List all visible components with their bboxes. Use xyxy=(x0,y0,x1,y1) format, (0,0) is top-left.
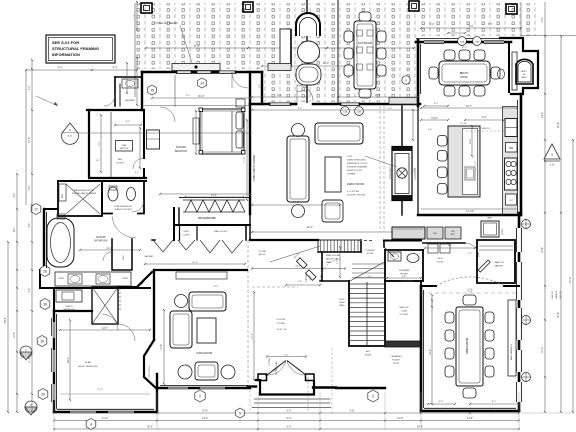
living circle 2 xyxy=(178,365,192,379)
breakfast chair left xyxy=(429,67,438,79)
living circle 1 xyxy=(175,295,188,308)
place setting xyxy=(357,47,363,53)
svg-text:SLOPED CEILING: SLOPED CEILING xyxy=(347,195,366,197)
pergola column 2 xyxy=(243,2,253,12)
deck door swing arc xyxy=(297,85,313,103)
family room interior dims xyxy=(252,109,418,111)
svg-text:16'-10": 16'-10" xyxy=(460,123,467,125)
bar stool 3 xyxy=(438,167,448,178)
section marker 2 xyxy=(62,123,78,133)
svg-text:58'-4": 58'-4" xyxy=(3,317,7,324)
svg-text:6'-0": 6'-0" xyxy=(468,138,472,143)
adult door arc xyxy=(118,324,135,341)
leader arrow bath xyxy=(36,96,58,106)
svg-text:5'-8": 5'-8" xyxy=(402,276,407,278)
svg-text:17: 17 xyxy=(34,207,38,211)
window marker 14 xyxy=(198,78,207,88)
pergola column 1 xyxy=(141,3,152,13)
svg-text:8'-2": 8'-2" xyxy=(492,401,497,403)
svg-text:17'-0": 17'-0" xyxy=(252,333,254,339)
pantry door 45 xyxy=(478,260,490,272)
svg-text:8'-0": 8'-0" xyxy=(469,25,474,28)
arched opening marks xyxy=(296,258,307,269)
wall: her closet top xyxy=(87,109,144,111)
svg-text:8'-0": 8'-0" xyxy=(194,44,200,48)
svg-text:HALLWAY: HALLWAY xyxy=(145,255,154,258)
refrigerator xyxy=(505,119,517,137)
svg-text:BLAH 'S: BLAH 'S xyxy=(65,305,73,308)
svg-text:7'-4": 7'-4" xyxy=(443,410,448,413)
svg-text:INFORMATION: INFORMATION xyxy=(52,52,80,57)
marker hex bottom 4 xyxy=(86,419,96,430)
svg-text:WALK CLOSET: WALK CLOSET xyxy=(214,230,228,233)
pocket door leaf xyxy=(384,247,394,257)
svg-text:SEE S-01 FOR: SEE S-01 FOR xyxy=(52,40,79,45)
svg-text:WASHER AND DRYER: WASHER AND DRYER xyxy=(74,189,94,192)
outdoor chair right 2 xyxy=(377,48,386,59)
svg-text:10A: 10A xyxy=(460,40,464,43)
upper stair treads xyxy=(352,263,385,265)
svg-text:10B: 10B xyxy=(475,41,479,43)
entry arc to dining xyxy=(436,277,504,286)
svg-text:ELEV +0D: ELEV +0D xyxy=(277,329,287,331)
window marker 12A xyxy=(341,107,350,116)
svg-text:9'-0": 9'-0" xyxy=(284,354,289,356)
svg-text:9'-0": 9'-0" xyxy=(287,417,292,420)
svg-text:BLAH TOP: BLAH TOP xyxy=(482,127,492,130)
window gaps adult west xyxy=(53,322,55,338)
svg-text:24'-9": 24'-9" xyxy=(557,122,560,128)
svg-text:MASTER: MASTER xyxy=(96,236,106,239)
svg-text:PROPOSED TV: PROPOSED TV xyxy=(390,164,392,178)
svg-text:14: 14 xyxy=(200,81,204,85)
svg-text:STACKED PAIR BY OWNER: STACKED PAIR BY OWNER xyxy=(72,192,97,195)
wall: breakfast room west xyxy=(417,40,420,106)
living armchair xyxy=(195,362,218,380)
svg-text:16: 16 xyxy=(43,269,47,273)
wall inner line: bath west xyxy=(46,212,48,268)
coat closet xyxy=(387,281,421,346)
svg-text:20: 20 xyxy=(41,392,45,396)
breakfast chair bottom 2 xyxy=(459,86,470,96)
oven cabinet xyxy=(506,194,517,205)
family armchair xyxy=(322,200,343,222)
wall: rear hall mid xyxy=(384,240,421,242)
outdoor chair right 3 xyxy=(377,65,386,76)
wall: dining east xyxy=(518,213,521,411)
mud room lockers xyxy=(423,242,465,244)
svg-text:2'-4": 2'-4" xyxy=(134,14,136,18)
svg-text:14'-2": 14'-2" xyxy=(102,417,108,420)
svg-text:13'-8": 13'-8" xyxy=(161,344,163,350)
svg-text:4'-2": 4'-2" xyxy=(124,76,126,80)
planter bay above bedroom wall xyxy=(172,64,220,71)
hall dashed arcs xyxy=(320,259,342,281)
breakfast chair top 3 xyxy=(474,50,485,60)
nightstand NE corner xyxy=(236,99,245,107)
bed xyxy=(200,109,244,154)
svg-text:2-STORY: 2-STORY xyxy=(276,319,286,321)
window gap bkfst north xyxy=(424,41,444,43)
svg-text:16'-7": 16'-7" xyxy=(466,105,472,108)
hall dim xyxy=(145,263,245,265)
svg-text:TOWEL: TOWEL xyxy=(58,278,64,280)
wall: step to family xyxy=(261,72,263,104)
wall: wine stair south xyxy=(318,251,361,253)
bar cabinets east xyxy=(508,300,516,376)
window marker 12B xyxy=(355,107,364,116)
svg-text:FRONT PORCH: FRONT PORCH xyxy=(149,365,151,379)
window marker 10A xyxy=(458,37,467,46)
shower with X xyxy=(92,287,118,324)
svg-text:POWDER: POWDER xyxy=(399,270,409,272)
wall: adult west xyxy=(53,310,55,412)
diagonal wall hall-living xyxy=(136,272,152,288)
svg-text:4'-8": 4'-8" xyxy=(439,401,444,403)
kitchen island xyxy=(448,126,480,197)
svg-text:9'-0": 9'-0" xyxy=(287,426,292,429)
door arc adult xyxy=(102,314,118,330)
fireplace leader xyxy=(365,156,397,167)
wall: breakfast room north xyxy=(416,41,511,44)
stair side wall xyxy=(321,252,323,281)
wall inner line: bkfst west xyxy=(420,44,422,94)
vanity double xyxy=(40,270,150,288)
wall: adult east xyxy=(156,374,158,412)
svg-text:PANTRY: PANTRY xyxy=(495,265,504,268)
svg-text:4'-0": 4'-0" xyxy=(96,160,100,162)
svg-text:2-STORY: 2-STORY xyxy=(269,357,271,366)
dining chair right 2 xyxy=(485,330,494,341)
marker hex 3 xyxy=(368,390,378,402)
marker hex 18 xyxy=(40,299,50,310)
svg-text:4'-6": 4'-6" xyxy=(481,115,486,119)
outdoor counter xyxy=(280,29,291,67)
grill side sink xyxy=(498,69,505,79)
interior dim marks xyxy=(252,96,307,98)
dining chair right 3 xyxy=(485,348,494,359)
dresser by closet xyxy=(147,130,160,149)
svg-text:PLANNING: PLANNING xyxy=(305,273,308,283)
svg-text:10'-2": 10'-2" xyxy=(541,112,544,118)
wall: rear hall north xyxy=(418,214,521,216)
place setting xyxy=(357,30,363,36)
svg-text:14'-7": 14'-7" xyxy=(461,47,467,49)
note box SEE S-01 xyxy=(46,35,115,63)
svg-text:8'-4": 8'-4" xyxy=(126,121,131,123)
svg-text:FAMILY ROOM: FAMILY ROOM xyxy=(347,183,364,186)
svg-text:LINE OF: LINE OF xyxy=(552,290,554,299)
svg-text:12'-4": 12'-4" xyxy=(467,291,473,293)
svg-text:14'-0": 14'-0" xyxy=(202,410,208,413)
svg-text:NOOK: NOOK xyxy=(460,76,467,79)
hanger zigzag xyxy=(185,200,245,212)
foyer extra dims xyxy=(253,292,255,380)
closet partition xyxy=(110,112,112,177)
dim near maid bath xyxy=(126,63,128,93)
svg-text:CLOSET: CLOSET xyxy=(116,163,125,165)
svg-text:14'-8": 14'-8" xyxy=(467,417,473,420)
outdoor chair left 3 xyxy=(344,65,353,76)
wall: grill alcove xyxy=(500,38,538,94)
svg-text:4'-6": 4'-6" xyxy=(14,228,16,233)
hall closet row xyxy=(152,239,155,241)
svg-text:19'-8": 19'-8" xyxy=(557,312,560,318)
window gaps living south xyxy=(168,387,188,389)
toilet 1 xyxy=(108,187,118,201)
svg-text:5'-6": 5'-6" xyxy=(29,186,31,191)
kitchen dim labels xyxy=(421,119,448,121)
entry double doors xyxy=(267,361,286,376)
svg-text:6 TRELLIS 2 BEAMS: 6 TRELLIS 2 BEAMS xyxy=(154,22,178,25)
built-in grill xyxy=(516,59,533,84)
svg-text:13'-6": 13'-6" xyxy=(541,247,544,253)
svg-text:WALK IN: WALK IN xyxy=(495,261,504,264)
svg-text:6'-8": 6'-8" xyxy=(414,168,416,172)
pantry shelves xyxy=(479,245,513,247)
svg-text:WALK: WALK xyxy=(326,261,332,264)
dining chair left 1 xyxy=(445,312,454,323)
svg-text:15: 15 xyxy=(150,88,154,92)
entry portal xyxy=(248,385,256,387)
wall: top of laundry xyxy=(58,180,146,182)
outdoor chair left 1 xyxy=(344,31,353,42)
dining chair right 1 xyxy=(485,312,494,323)
window circle marker xyxy=(522,373,531,382)
svg-text:& MODEL NUMBER: & MODEL NUMBER xyxy=(347,167,367,169)
bidet xyxy=(127,188,136,201)
svg-text:4'-6": 4'-6" xyxy=(29,223,31,228)
wall inner line: adult west xyxy=(56,314,58,409)
breakfast chair bottom 1 xyxy=(444,86,455,96)
wall: bath/adult divider xyxy=(53,288,55,311)
planter bay family east xyxy=(389,98,417,105)
door arc bedroom entry xyxy=(160,107,175,122)
wall: her closet xyxy=(89,110,146,178)
elevation marker 2 xyxy=(25,401,37,413)
deck dimension line lower xyxy=(262,65,345,67)
svg-text:5'-6": 5'-6" xyxy=(14,193,16,198)
svg-text:BLAH: BLAH xyxy=(85,361,91,364)
svg-text:11'-4": 11'-4" xyxy=(29,357,31,363)
svg-text:4'-0": 4'-0" xyxy=(541,17,544,22)
soffit line bedroom xyxy=(142,105,250,107)
wall: wardrobe xyxy=(179,197,250,199)
wall: master bedroom north xyxy=(142,71,176,74)
svg-text:19'-8": 19'-8" xyxy=(467,289,473,291)
wall: master bedroom east xyxy=(249,72,251,214)
powder sink xyxy=(388,252,401,261)
center dim line xyxy=(252,268,345,270)
svg-text:POCKET: POCKET xyxy=(392,360,401,362)
bar stool 4 xyxy=(438,184,448,195)
svg-text:ABOVE: ABOVE xyxy=(259,253,266,256)
svg-text:SIDED VENTLESS: SIDED VENTLESS xyxy=(347,160,366,162)
svg-text:9'-2": 9'-2" xyxy=(277,94,282,97)
svg-text:12A: 12A xyxy=(343,110,347,113)
planter bay family xyxy=(268,64,291,71)
wall: laundry xyxy=(58,182,102,216)
wall: kitchen east xyxy=(520,94,523,215)
entry jambs xyxy=(258,374,267,381)
svg-text:1:10: 1:10 xyxy=(550,164,555,167)
svg-text:2 BRANDED: 2 BRANDED xyxy=(390,355,402,358)
wall: dining north opening xyxy=(421,285,436,287)
svg-text:11'-2": 11'-2" xyxy=(541,347,544,353)
pergola column 4 xyxy=(409,1,419,11)
svg-text:BATHROOM: BATHROOM xyxy=(94,240,107,243)
marker hex 2 xyxy=(195,390,205,402)
svg-text:24'-0": 24'-0" xyxy=(323,61,330,65)
closet vanity box xyxy=(116,141,133,152)
breakfast chair bottom 3 xyxy=(474,86,485,96)
svg-text:16'-4": 16'-4" xyxy=(430,349,432,355)
fireplace wall xyxy=(401,106,403,146)
svg-text:2: 2 xyxy=(199,394,201,398)
wall: dining south xyxy=(421,410,519,413)
door arc wc xyxy=(132,200,144,212)
dining chair head top xyxy=(463,295,476,305)
window circle marker xyxy=(522,316,531,325)
svg-text:A-201: A-201 xyxy=(68,135,73,138)
island sink xyxy=(465,167,475,180)
svg-text:4'-0": 4'-0" xyxy=(434,103,439,105)
svg-text:BELOW: BELOW xyxy=(560,291,562,298)
bifold doors xyxy=(153,240,163,252)
marker hex 17 xyxy=(31,204,41,215)
outdoor chair right 1 xyxy=(377,31,386,42)
window circle marker xyxy=(522,220,531,229)
breakfast chair right xyxy=(491,67,500,79)
svg-text:11'-6": 11'-6" xyxy=(97,389,103,391)
svg-text:OUTLINE: OUTLINE xyxy=(258,251,267,253)
dim top corner xyxy=(136,2,138,30)
svg-text:LINEN: LINEN xyxy=(123,255,125,261)
svg-text:8'-0": 8'-0" xyxy=(488,24,493,26)
wall inner line: adult south xyxy=(57,408,154,410)
wall: kitchen/bkfst divider xyxy=(417,106,419,215)
deck roof edge lines xyxy=(306,0,308,103)
svg-text:VANITY 36: VANITY 36 xyxy=(120,147,128,150)
cabinets row top xyxy=(427,227,443,239)
svg-text:42'-0": 42'-0" xyxy=(569,277,572,283)
svg-text:10'-6": 10'-6" xyxy=(29,137,31,143)
svg-text:OVER: OVER xyxy=(310,275,312,281)
svg-text:GRILL: GRILL xyxy=(521,77,528,79)
outdoor chair left 2 xyxy=(344,48,353,59)
svg-text:43'-0": 43'-0" xyxy=(295,266,301,268)
wall ovens xyxy=(481,221,499,237)
svg-text:STRUCTURAL FRAMING: STRUCTURAL FRAMING xyxy=(52,46,99,51)
round patio table xyxy=(298,41,320,63)
svg-text:9'-8": 9'-8" xyxy=(350,410,355,413)
wall inner line: dining south xyxy=(424,407,516,409)
dishwasher DW xyxy=(506,143,518,153)
svg-text:12'-8": 12'-8" xyxy=(397,417,403,420)
svg-text:3'-0": 3'-0" xyxy=(475,161,477,165)
window marker 15 xyxy=(148,85,157,95)
svg-text:9'-10": 9'-10" xyxy=(431,116,438,120)
svg-text:FOYER: FOYER xyxy=(277,323,285,325)
outdoor fireplace arch xyxy=(296,13,320,36)
wall: master bath west xyxy=(43,209,45,270)
dashed ceiling line family xyxy=(383,106,385,232)
top dimension ticks xyxy=(421,27,521,29)
deck circle marker xyxy=(402,76,410,84)
wall: her closet east xyxy=(143,110,145,158)
mud hall dims xyxy=(425,247,475,249)
svg-text:16'-8": 16'-8" xyxy=(192,262,198,264)
svg-text:LIVING ROOM: LIVING ROOM xyxy=(196,352,212,355)
window seat bench xyxy=(392,227,425,239)
extra kitchen dim texts xyxy=(421,107,517,109)
svg-text:ROOM: ROOM xyxy=(437,262,444,264)
dining extra dims xyxy=(431,300,433,404)
svg-text:COAT: COAT xyxy=(401,310,408,313)
svg-text:FIREPLACE, STYLE: FIREPLACE, STYLE xyxy=(347,162,368,165)
svg-text:HIGH: HIGH xyxy=(340,302,346,304)
marker hex 19 xyxy=(37,336,47,347)
svg-text:8'-4": 8'-4" xyxy=(448,245,452,247)
svg-text:8'-0": 8'-0" xyxy=(430,24,435,26)
svg-text:5'-4": 5'-4" xyxy=(298,281,302,283)
maid bath room xyxy=(115,76,142,78)
svg-text:16'-1": 16'-1" xyxy=(67,357,70,363)
svg-text:14'-6": 14'-6" xyxy=(293,202,299,204)
wall: bkfst east xyxy=(508,44,510,92)
svg-text:4'-0": 4'-0" xyxy=(388,108,393,110)
wall: family room north xyxy=(250,103,269,106)
svg-text:CLOSET: CLOSET xyxy=(182,235,190,237)
outdoor chair top xyxy=(359,12,371,21)
wine stair arrow xyxy=(270,246,320,262)
outdoor dining table xyxy=(354,21,376,89)
living circle 3 xyxy=(221,365,235,379)
svg-text:14'-7": 14'-7" xyxy=(102,327,108,330)
svg-text:19: 19 xyxy=(40,339,44,343)
bedroom dim xyxy=(152,97,250,99)
bottom dimension lines xyxy=(157,412,519,414)
svg-text:4: 4 xyxy=(90,422,92,426)
svg-text:LINEN: LINEN xyxy=(183,231,189,233)
svg-text:ADULT BEDROOM: ADULT BEDROOM xyxy=(79,365,98,368)
breakfast chair top 2 xyxy=(459,50,470,60)
svg-text:MASTER: MASTER xyxy=(176,146,186,149)
living coffee table xyxy=(197,318,216,343)
burner pair xyxy=(506,161,511,166)
svg-text:BUILT: BUILT xyxy=(521,71,527,73)
svg-text:12B: 12B xyxy=(357,111,361,113)
svg-text:NICHE: NICHE xyxy=(365,355,372,357)
svg-text:SLAB SHOWER W/: SLAB SHOWER W/ xyxy=(114,205,132,208)
deck hatched patio area xyxy=(135,3,262,69)
svg-text:19'-0": 19'-0" xyxy=(213,286,219,288)
svg-text:3'-0": 3'-0" xyxy=(186,95,190,97)
svg-text:8'-5": 8'-5" xyxy=(99,141,101,146)
dining chair head bottom xyxy=(463,388,476,398)
svg-text:POWDER: POWDER xyxy=(366,250,376,252)
svg-text:OWNER: OWNER xyxy=(347,174,356,176)
wall: adult south xyxy=(54,411,157,413)
cooktop xyxy=(505,158,518,190)
marker hex 16 xyxy=(40,266,50,277)
stair treads xyxy=(350,283,384,285)
bay window living xyxy=(144,340,157,389)
svg-text:GLASS DOOR SET: GLASS DOOR SET xyxy=(114,208,132,211)
dining chair left 3 xyxy=(445,348,454,359)
dining chair left 2 xyxy=(445,330,454,341)
svg-text:14'-10": 14'-10" xyxy=(466,209,474,213)
